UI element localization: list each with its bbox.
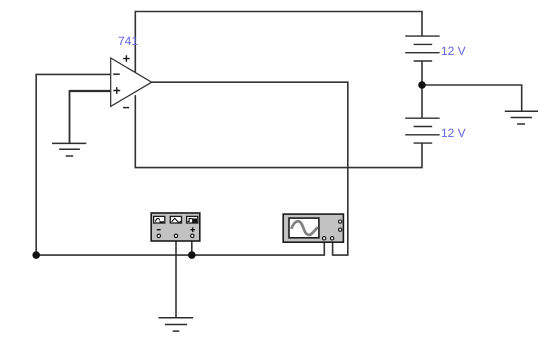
svg-text:12 V: 12 V <box>441 126 466 140</box>
svg-text:741: 741 <box>118 34 138 48</box>
svg-text:12 V: 12 V <box>441 44 466 58</box>
